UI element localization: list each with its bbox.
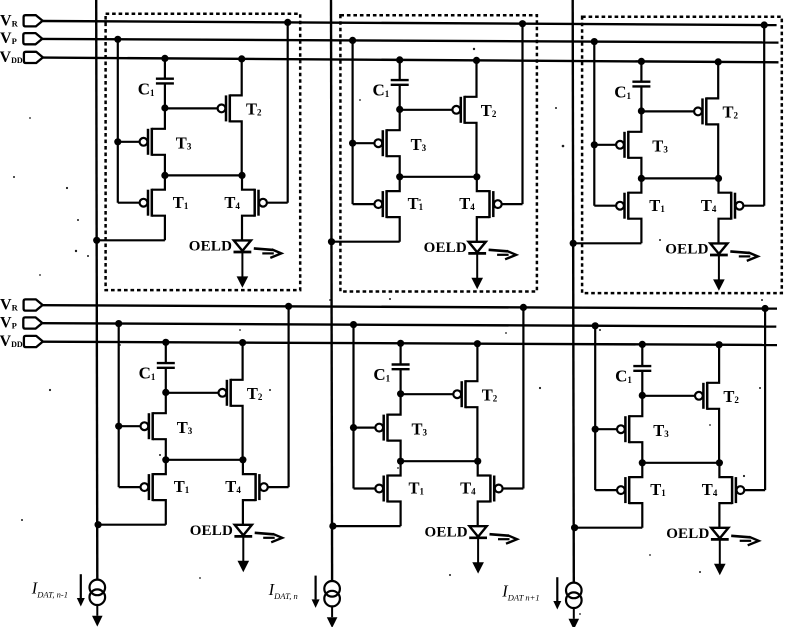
junction mid-left (row 2, col 2) bbox=[397, 458, 404, 465]
wire: VR bus row 1 bbox=[43, 21, 777, 25]
capacitor C1 (row 1, col 3) bbox=[632, 80, 650, 82]
OELD diode (row 2, col 3) bbox=[711, 528, 728, 539]
wire: data line column 3 bbox=[573, 0, 574, 583]
transistor T2 (row 2, col 3) bbox=[642, 395, 695, 397]
wire: mid node (row 1, col 2) bbox=[400, 176, 477, 178]
junction on V_R (row 1, col 3) bbox=[761, 21, 768, 28]
light emission arrow (row 2, col 3) bbox=[731, 536, 750, 538]
junction on V_P (row 1, col 3) bbox=[591, 38, 598, 45]
junction on V_DD at T2 drain (row 2, col 3) bbox=[716, 341, 723, 348]
transistor T3 (row 2, col 3) bbox=[595, 428, 617, 430]
junction on V_R (row 2, col 2) bbox=[520, 304, 527, 311]
OELD diode (row 1, col 1) bbox=[234, 240, 251, 251]
wire: T1 source to data line (row 1, col 2) bbox=[332, 241, 400, 243]
current direction arrow column 1 bbox=[80, 574, 82, 598]
junction T3 gate (row 1, col 2) bbox=[349, 140, 356, 147]
junction mid-right (row 1, col 2) bbox=[473, 173, 480, 180]
OELD diode (row 2, col 1) bbox=[235, 525, 252, 536]
junction mid-left (row 1, col 3) bbox=[638, 175, 645, 182]
transistor T1 (row 2, col 1) bbox=[119, 486, 141, 488]
junction mid-right (row 2, col 2) bbox=[474, 458, 481, 465]
wire: VDD bus row 1 bbox=[43, 58, 779, 63]
wire: V_DD to capacitor (row 2, col 2) bbox=[400, 343, 402, 364]
junction on data line (row 2, col 1) bbox=[95, 521, 102, 528]
junction on V_R (row 2, col 1) bbox=[285, 303, 292, 310]
light emission arrow (row 2, col 1) bbox=[255, 533, 274, 535]
wire: mid node (row 1, col 3) bbox=[641, 177, 718, 179]
current direction arrow column 3 bbox=[556, 577, 558, 601]
wire: T4 gate line to V_R (row 1, col 2) bbox=[521, 24, 523, 204]
junction gate node (row 1, col 3) bbox=[638, 107, 645, 114]
wire: V_DD to capacitor (row 1, col 2) bbox=[399, 60, 401, 80]
junction on V_DD at T2 drain (row 1, col 3) bbox=[715, 58, 722, 65]
transistor T4 (row 2, col 1) bbox=[268, 486, 289, 488]
transistor T4 (row 1, col 1) bbox=[267, 202, 288, 204]
junction on V_R (row 1, col 2) bbox=[519, 20, 526, 27]
wire: T4 gate line to V_R (row 1, col 1) bbox=[287, 22, 289, 202]
current direction arrow column 2 bbox=[315, 576, 317, 600]
svg-text:OELD: OELD bbox=[666, 526, 709, 542]
wire: V_P feed line (row 2, col 1) bbox=[118, 324, 120, 488]
terminal connector VDD row 1 bbox=[24, 52, 43, 63]
wire: V_P feed line (row 2, col 2) bbox=[352, 325, 354, 489]
wire: V_P feed line (row 1, col 3) bbox=[593, 42, 595, 206]
junction on V_P (row 1, col 1) bbox=[114, 36, 121, 43]
transistor T3 (row 2, col 2) bbox=[354, 427, 376, 429]
wire: VR bus row 2 bbox=[43, 305, 777, 308]
terminal connector VR row 2 bbox=[24, 299, 43, 310]
junction on V_DD at capacitor (row 1, col 3) bbox=[638, 58, 645, 65]
junction on V_DD at capacitor (row 2, col 2) bbox=[397, 340, 404, 347]
junction on V_R (row 1, col 1) bbox=[284, 19, 291, 26]
svg-text:OELD: OELD bbox=[424, 240, 467, 256]
light emission arrow (row 1, col 1) bbox=[254, 248, 273, 250]
wire: mid node (row 2, col 3) bbox=[642, 462, 719, 464]
transistor T1 (row 1, col 2) bbox=[353, 203, 375, 205]
terminal connector VP row 2 bbox=[23, 317, 42, 328]
junction on V_P (row 2, col 1) bbox=[115, 320, 122, 327]
junction on V_DD at T2 drain (row 1, col 2) bbox=[473, 57, 480, 64]
wire: T1 source to data line (row 2, col 3) bbox=[575, 527, 643, 529]
transistor T4 (row 2, col 2) bbox=[503, 487, 524, 489]
dashed pixel boundary box (row 1, col 2) bbox=[340, 15, 537, 291]
current source I_DAT column 3 bbox=[566, 583, 582, 599]
OELD diode (row 2, col 2) bbox=[470, 526, 487, 537]
junction on V_DD at capacitor (row 1, col 2) bbox=[396, 56, 403, 63]
light emission arrow (row 1, col 2) bbox=[489, 250, 508, 252]
junction on V_DD at capacitor (row 2, col 3) bbox=[639, 341, 646, 348]
light emission arrow (row 1, col 3) bbox=[730, 251, 749, 253]
wire: capacitor to gate node (row 2, col 2) bbox=[400, 369, 402, 394]
wire: capacitor to gate node (row 1, col 3) bbox=[640, 86, 642, 111]
wire: T4 gate line to V_R (row 2, col 3) bbox=[764, 309, 766, 491]
junction gate node (row 2, col 3) bbox=[639, 392, 646, 399]
junction on data line (row 1, col 2) bbox=[328, 238, 335, 245]
wire: mid node (row 1, col 1) bbox=[165, 174, 242, 176]
junction on V_P (row 2, col 2) bbox=[350, 321, 357, 328]
transistor T2 (row 2, col 1) bbox=[166, 392, 219, 394]
dashed pixel boundary box (row 1, col 1) bbox=[106, 14, 301, 290]
junction mid-right (row 1, col 1) bbox=[238, 172, 245, 179]
wire: V_P feed line (row 2, col 3) bbox=[594, 326, 596, 490]
junction on V_DD at T2 drain (row 2, col 1) bbox=[239, 339, 246, 346]
wire: T4 gate line to V_R (row 1, col 3) bbox=[763, 25, 765, 206]
wire: T4 gate line to V_R (row 2, col 1) bbox=[288, 306, 290, 487]
capacitor C1 (row 2, col 1) bbox=[157, 362, 175, 364]
junction on V_DD at capacitor (row 1, col 1) bbox=[161, 55, 168, 62]
junction mid-left (row 2, col 3) bbox=[639, 459, 646, 466]
transistor T3 (row 1, col 1) bbox=[118, 141, 140, 143]
wire: T1 source to data line (row 2, col 2) bbox=[333, 525, 401, 527]
transistor T2 (row 1, col 2) bbox=[400, 109, 453, 111]
transistor T2 (row 2, col 2) bbox=[401, 393, 454, 395]
wire: mid node (row 2, col 1) bbox=[166, 459, 243, 461]
transistor T1 (row 1, col 1) bbox=[118, 202, 140, 204]
wire: VDD bus row 2 bbox=[43, 342, 777, 345]
junction on data line (row 1, col 3) bbox=[570, 240, 577, 247]
junction on V_P (row 1, col 2) bbox=[349, 37, 356, 44]
light emission arrow (row 2, col 2) bbox=[490, 534, 509, 536]
transistor T1 (row 1, col 3) bbox=[594, 205, 616, 207]
capacitor C1 (row 1, col 2) bbox=[391, 79, 409, 81]
wire: V_DD to capacitor (row 1, col 3) bbox=[640, 61, 642, 81]
junction mid-right (row 1, col 3) bbox=[715, 175, 722, 182]
junction T3 gate (row 2, col 1) bbox=[115, 423, 122, 430]
junction on V_DD at capacitor (row 2, col 1) bbox=[162, 339, 169, 346]
wire: mid node (row 2, col 2) bbox=[401, 460, 478, 462]
junction on data line (row 2, col 2) bbox=[329, 523, 336, 530]
junction mid-left (row 1, col 1) bbox=[161, 172, 168, 179]
junction T3 gate (row 2, col 3) bbox=[592, 426, 599, 433]
svg-text:OELD: OELD bbox=[190, 523, 233, 539]
wire: capacitor to gate node (row 2, col 3) bbox=[641, 371, 643, 396]
junction mid-right (row 2, col 3) bbox=[716, 459, 723, 466]
wire: T1 source to data line (row 1, col 1) bbox=[97, 239, 165, 241]
transistor T1 (row 2, col 3) bbox=[595, 489, 617, 491]
junction gate node (row 2, col 1) bbox=[162, 389, 169, 396]
wire: V_P feed line (row 1, col 2) bbox=[352, 40, 354, 204]
junction T3 gate (row 2, col 2) bbox=[350, 424, 357, 431]
wire: V_P feed line (row 1, col 1) bbox=[117, 39, 119, 202]
wire: capacitor to gate node (row 1, col 2) bbox=[399, 85, 401, 110]
wire: V_DD to capacitor (row 1, col 1) bbox=[164, 58, 166, 78]
capacitor C1 (row 2, col 3) bbox=[633, 365, 651, 367]
current source I_DAT column 2 bbox=[324, 581, 340, 597]
wire: VP bus row 2 bbox=[42, 323, 776, 326]
junction T3 gate (row 1, col 1) bbox=[114, 138, 121, 145]
OELD diode (row 1, col 3) bbox=[710, 243, 727, 254]
transistor T1 (row 2, col 2) bbox=[354, 487, 376, 489]
wire: capacitor to gate node (row 1, col 1) bbox=[164, 83, 166, 108]
junction on V_R (row 2, col 3) bbox=[762, 305, 769, 312]
junction on V_DD at T2 drain (row 2, col 2) bbox=[474, 340, 481, 347]
junction on V_DD at T2 drain (row 1, col 1) bbox=[238, 55, 245, 62]
wire: V_DD to capacitor (row 2, col 3) bbox=[641, 344, 643, 366]
junction on data line (row 2, col 3) bbox=[571, 524, 578, 531]
transistor T2 (row 1, col 3) bbox=[641, 110, 694, 112]
junction gate node (row 1, col 2) bbox=[396, 106, 403, 113]
wire: data line column 1 bbox=[96, 0, 97, 580]
wire: VP bus row 1 bbox=[42, 39, 778, 43]
wire: data line column 2 bbox=[331, 0, 332, 581]
wire: capacitor to gate node (row 2, col 1) bbox=[165, 368, 167, 393]
transistor T3 (row 1, col 2) bbox=[353, 142, 375, 144]
OELD diode (row 1, col 2) bbox=[469, 242, 486, 253]
junction gate node (row 2, col 2) bbox=[397, 390, 404, 397]
svg-text:OELD: OELD bbox=[425, 524, 468, 540]
transistor T4 (row 2, col 3) bbox=[744, 489, 765, 491]
junction mid-left (row 2, col 1) bbox=[162, 456, 169, 463]
wire: T1 source to data line (row 1, col 3) bbox=[573, 242, 641, 244]
transistor T2 (row 1, col 1) bbox=[165, 107, 218, 109]
terminal connector VDD row 2 bbox=[24, 336, 43, 347]
junction T3 gate (row 1, col 3) bbox=[591, 141, 598, 148]
current source I_DAT column 1 bbox=[90, 580, 106, 596]
junction on V_P (row 2, col 3) bbox=[592, 322, 599, 329]
svg-text:OELD: OELD bbox=[665, 242, 708, 258]
wire: T1 source to data line (row 2, col 1) bbox=[98, 524, 166, 526]
transistor T3 (row 2, col 1) bbox=[119, 425, 141, 427]
dashed pixel boundary box (row 1, col 3) bbox=[582, 17, 782, 293]
terminal connector VP row 1 bbox=[23, 33, 42, 44]
transistor T3 (row 1, col 3) bbox=[594, 144, 616, 146]
wire: T4 gate line to V_R (row 2, col 2) bbox=[522, 307, 524, 488]
junction on data line (row 1, col 1) bbox=[93, 237, 100, 244]
junction gate node (row 1, col 1) bbox=[161, 104, 168, 111]
transistor T4 (row 1, col 2) bbox=[502, 203, 523, 205]
transistor T4 (row 1, col 3) bbox=[743, 205, 764, 207]
capacitor C1 (row 2, col 2) bbox=[392, 363, 410, 365]
junction mid-left (row 1, col 2) bbox=[396, 173, 403, 180]
terminal connector VR row 1 bbox=[24, 15, 43, 26]
junction mid-right (row 2, col 1) bbox=[239, 456, 246, 463]
wire: V_DD to capacitor (row 2, col 1) bbox=[165, 342, 167, 363]
capacitor C1 (row 1, col 1) bbox=[156, 77, 174, 79]
svg-text:OELD: OELD bbox=[189, 239, 232, 255]
